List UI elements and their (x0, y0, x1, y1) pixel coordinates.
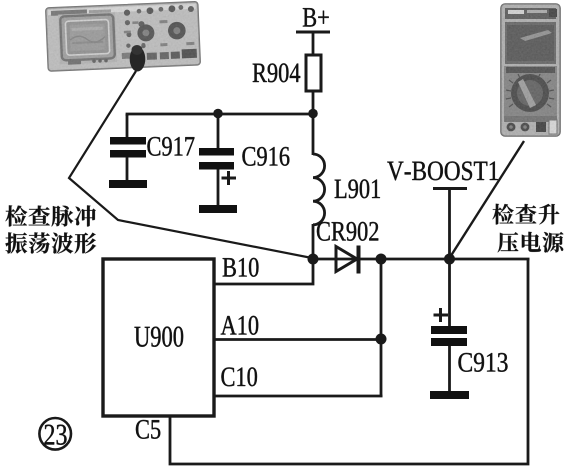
wire cathode to V-BOOST1 node and right corner (381, 258, 530, 261)
junction node: CR902 cathode (376, 254, 387, 265)
wire CR902 cathode down to C10 (380, 259, 383, 396)
node V-BOOST1 (387, 162, 403, 181)
IC U900 (103, 259, 214, 416)
oscilloscope probe connector (130, 47, 146, 72)
wire right side down and along bottom to C5 (170, 259, 528, 464)
inductor L901 (313, 154, 325, 225)
ground (C917) (109, 180, 147, 188)
wire R904 to junction (312, 91, 315, 155)
diode CR902 (313, 258, 381, 261)
callout line from oscilloscope probe to node B10 (69, 71, 312, 258)
label C913 (458, 353, 471, 372)
capacitor C913 (polarized) (448, 259, 451, 326)
ground (C913) (430, 391, 469, 399)
pin label C10 (221, 367, 234, 386)
pin B10 wire (215, 259, 313, 284)
pin label B10 (223, 258, 236, 276)
pin C5 label (136, 420, 149, 439)
label C916 (242, 147, 255, 166)
oscilloscope (test instrument photo) (46, 2, 201, 71)
wire L901 to diode node (312, 224, 315, 259)
junction node: A10 (376, 334, 387, 345)
label C917 (147, 137, 160, 156)
label 压电源 (voltage supply) (498, 232, 519, 252)
ground (C916) (199, 205, 237, 213)
label 振荡波形 (oscillation waveform) (5, 232, 27, 253)
multimeter (test instrument photo) (501, 4, 560, 136)
junction node at C916 (213, 109, 223, 119)
label 检查升 (check boost) (492, 204, 513, 225)
callout line from multimeter to node V-BOOST1 (450, 141, 525, 258)
junction node: L901 / CR902 anode / B10 (308, 254, 319, 265)
resistor R904 (306, 55, 321, 91)
label 检查脉冲 (check pulse) (5, 205, 27, 226)
label CR902 (317, 222, 330, 241)
junction node: V-BOOST1 / C913 (444, 254, 455, 265)
capacitor C917 (126, 114, 129, 137)
junction node: R904 / C-rail / L901 (308, 109, 318, 119)
figure number 23 (circled) (39, 418, 71, 450)
label L901 (335, 180, 347, 198)
label R904 (253, 64, 267, 82)
pin A10 wire (215, 338, 381, 341)
pin C10 wire (215, 395, 383, 398)
label U900 (134, 327, 149, 347)
capacitor C916 (polarized) (217, 114, 220, 148)
pin label A10 (221, 316, 237, 334)
wire B+ to R904 (312, 32, 315, 55)
node B+ (303, 8, 316, 26)
wire capacitor rail (127, 114, 313, 116)
